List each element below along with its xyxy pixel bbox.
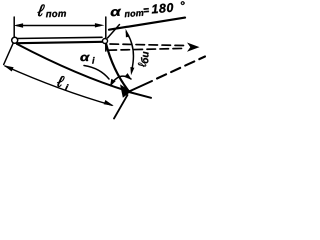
extension line from elbow down-left	[114, 95, 128, 119]
arrow tip of unfolded link	[187, 43, 200, 52]
l_pot right arrowhead	[95, 23, 105, 27]
arc alpha_i left arrowhead	[110, 79, 116, 87]
l_pot left arrowhead	[14, 23, 24, 27]
leader from joint J1 to alpha_pot underline	[108, 25, 120, 39]
label alpha_i alpha glyph	[80, 55, 89, 61]
dimension line l_i	[5, 66, 112, 105]
label l_pot subscript	[46, 11, 66, 17]
extension line from joint O down-left	[4, 44, 13, 65]
l_i left arrowhead	[4, 65, 14, 71]
joint O circle	[12, 37, 18, 43]
l_b top arrowhead	[126, 29, 130, 38]
dashed row A (unfolded link upper edge)	[110, 44, 187, 46]
short stub from elbow down-right	[129, 92, 151, 98]
label l_i	[56, 75, 70, 91]
link from joint O to elbow	[17, 44, 129, 92]
dashed unfolded axis	[157, 57, 205, 79]
dimension line l_pot	[17, 25, 100, 27]
dashed row B (unfolded link lower edge)	[108, 48, 183, 50]
arc alpha_i right arrowhead	[124, 73, 131, 80]
label alpha_i subscript	[92, 57, 95, 64]
rotated label l_b	[138, 51, 149, 67]
underline of alpha_pot label	[109, 18, 185, 30]
bar bottom edge	[18, 42, 103, 43]
l_i right arrowhead	[104, 100, 114, 106]
solid stub of unfolded axis at elbow	[129, 81, 152, 92]
dimension line l_b	[126, 32, 133, 70]
l_b bottom arrowhead	[130, 67, 134, 75]
leader from alpha_i label to arc	[84, 66, 109, 80]
angle arc alpha_i at elbow	[111, 76, 132, 85]
bar top edge	[17, 37, 103, 38]
extension line above joint O	[13, 17, 15, 37]
joint J1 circle	[103, 39, 108, 44]
extension line right at joint J1	[105, 17, 107, 51]
elbow junction ink blob	[122, 87, 130, 97]
label l_pot script l	[37, 5, 45, 17]
label alpha_pot alpha glyph	[110, 9, 121, 17]
label alpha_pot = 180 deg	[124, 1, 185, 17]
link from joint J1 to elbow	[106, 44, 129, 92]
